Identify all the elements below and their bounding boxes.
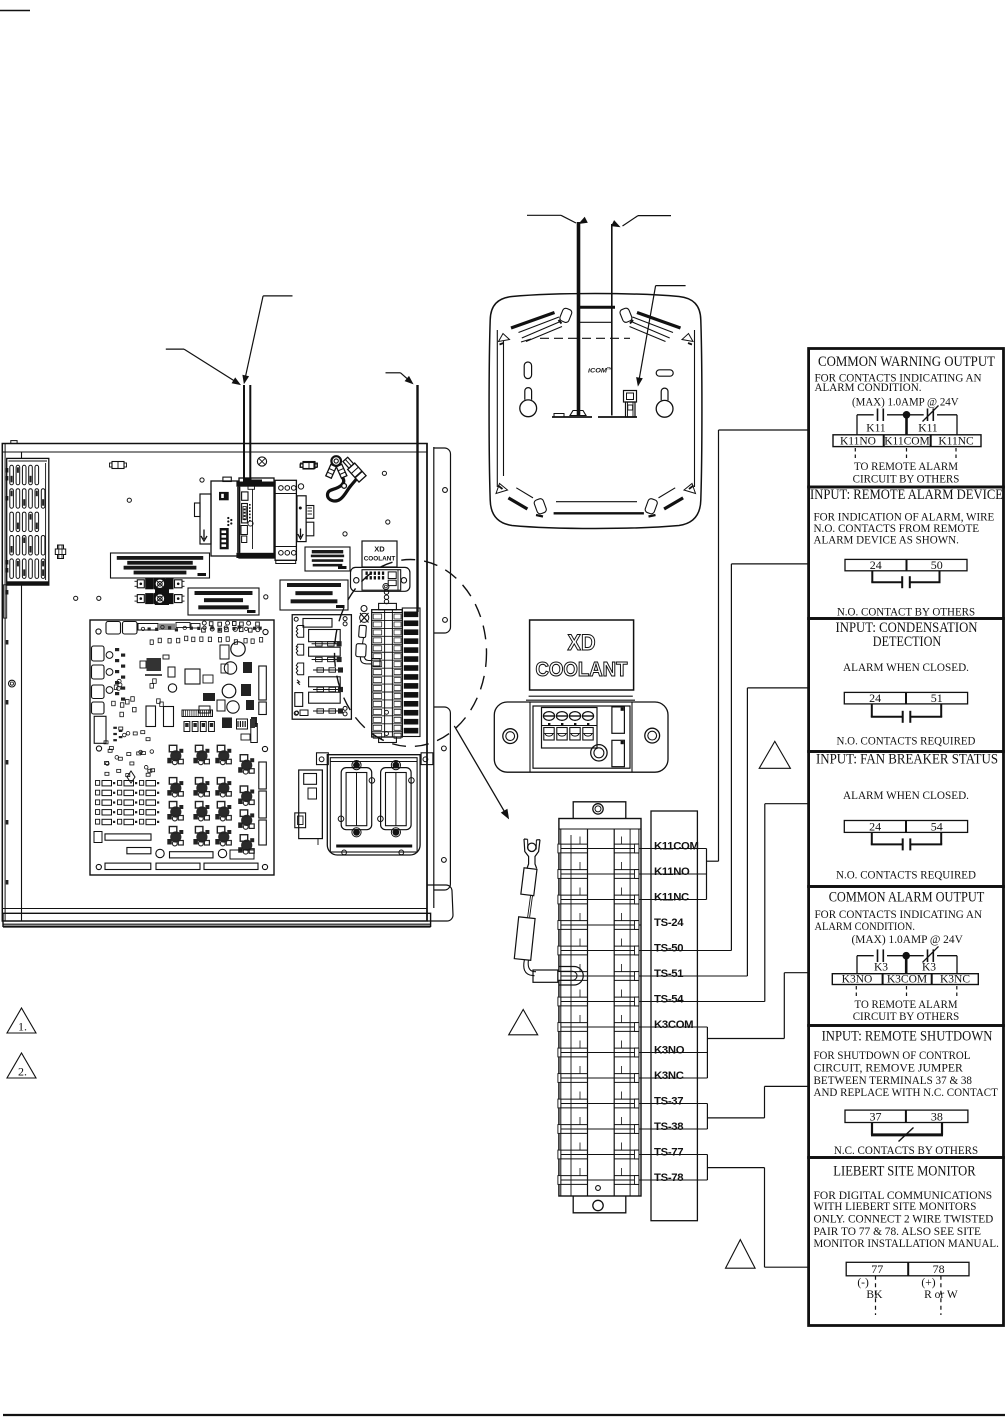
spade fork inside strip at TS-51 xyxy=(559,967,584,986)
svg-text:TS-78: TS-78 xyxy=(654,1172,683,1184)
svg-text:FOR INDICATION OF ALARM, WIRE: FOR INDICATION OF ALARM, WIRE xyxy=(814,512,995,524)
spade lug and fuse assembly wired to TS-51 xyxy=(524,839,540,869)
terminals 77 and 78 xyxy=(846,1262,969,1276)
svg-text:K3COM: K3COM xyxy=(654,1019,693,1031)
svg-text:INPUT: REMOTE SHUTDOWN: INPUT: REMOTE SHUTDOWN xyxy=(822,1028,993,1044)
wire W4: TS-54 to INPUT FAN BREAKER STATUS box xyxy=(764,804,766,1002)
relay K3 contact schematic xyxy=(857,955,874,957)
PCB right-mid round cans xyxy=(231,642,245,656)
N.O. contact symbol xyxy=(871,832,873,844)
svg-text:77: 77 xyxy=(871,1262,883,1276)
terminals 24 and 51 xyxy=(844,692,967,704)
leader to thin wire xyxy=(638,215,671,217)
enclosure outline xyxy=(489,294,702,529)
svg-text:XD: XD xyxy=(374,545,385,554)
svg-text:CIRCUIT BY OTHERS: CIRCUIT BY OTHERS xyxy=(853,1011,960,1023)
sensor screw hole left xyxy=(503,729,518,744)
enclosure bottom-left vent hatch xyxy=(516,488,533,498)
svg-text:N.O. CONTACT BY OTHERS: N.O. CONTACT BY OTHERS xyxy=(837,607,975,619)
svg-text:24: 24 xyxy=(870,558,882,572)
right keyhole slot xyxy=(661,388,668,400)
page top-left tick mark xyxy=(0,10,30,12)
N.O. contact symbol by others xyxy=(871,571,873,582)
transformer right flange xyxy=(297,496,306,542)
svg-text:ALARM DEVICE AS SHOWN.: ALARM DEVICE AS SHOWN. xyxy=(814,534,960,546)
svg-text:COOLANT: COOLANT xyxy=(536,659,628,681)
panel right edge xyxy=(426,443,428,921)
svg-text:K3NO: K3NO xyxy=(654,1045,685,1057)
svg-text:K3NO: K3NO xyxy=(842,974,873,986)
svg-text:K3: K3 xyxy=(874,961,888,973)
sensor grommet xyxy=(591,745,607,761)
PCB mid-left filler parts xyxy=(116,686,120,690)
PCB capacitor grid lower-left xyxy=(96,781,100,786)
svg-text:FOR CONTACTS INDICATING AN: FOR CONTACTS INDICATING AN xyxy=(815,909,983,921)
warning triangle near site monitor box xyxy=(726,1240,756,1269)
right flange plate lower xyxy=(434,707,451,890)
svg-text:FOR DIGITAL COMMUNICATIONS: FOR DIGITAL COMMUNICATIONS xyxy=(814,1190,993,1202)
small terminal connector in enclosure xyxy=(624,391,637,403)
svg-text:TS-50: TS-50 xyxy=(654,943,683,955)
wire clamp black bars xyxy=(402,608,420,737)
svg-text:AND REPLACE WITH N.C. CONTACT: AND REPLACE WITH N.C. CONTACT xyxy=(814,1087,998,1099)
wire W2: TS-50 to INPUT REMOTE ALARM DEVICE box xyxy=(730,564,732,951)
IO connector right xyxy=(381,768,412,830)
PCB center extra ICs xyxy=(203,693,215,701)
relay fuse links xyxy=(312,643,339,645)
XD COOLANT panel label xyxy=(362,541,397,567)
PCB transistor grid xyxy=(167,745,183,764)
svg-text:50: 50 xyxy=(931,558,943,572)
PCB top-left connectors xyxy=(106,622,121,635)
svg-text:24: 24 xyxy=(869,819,881,833)
svg-text:INPUT: REMOTE ALARM DEVICE: INPUT: REMOTE ALARM DEVICE xyxy=(810,487,1003,503)
svg-text:K3NC: K3NC xyxy=(940,974,970,986)
IO side bracket xyxy=(299,770,323,839)
PCB comb connector xyxy=(182,710,213,717)
wire W1: K11 terminals to COMMON WARNING OUTPUT box xyxy=(706,849,708,900)
terminal stub leads xyxy=(641,848,707,850)
terminals 24 and 54 xyxy=(844,821,967,833)
transformer right contactor xyxy=(275,480,296,560)
terminal cells K11NO K11COM K11NC xyxy=(833,435,981,447)
svg-text:BETWEEN TERMINALS 37 & 38: BETWEEN TERMINALS 37 & 38 xyxy=(814,1075,973,1087)
svg-text:TS-37: TS-37 xyxy=(654,1096,683,1108)
sensor module top strip xyxy=(529,695,633,697)
leader C to field wire xyxy=(386,372,401,374)
svg-text:BK: BK xyxy=(866,1289,883,1301)
field wire to terminal strip xyxy=(416,385,418,612)
incoming 24V wire pair xyxy=(243,385,245,479)
svg-text:K11NO: K11NO xyxy=(654,866,690,878)
relay fuse board xyxy=(292,615,351,720)
PCB top edge components xyxy=(202,621,206,625)
PCB mid ICs xyxy=(146,706,156,727)
panel terminal strip xyxy=(372,610,403,737)
wire W5: K3 terminals to COMMON ALARM OUTPUT box xyxy=(706,1027,708,1078)
transformer middle block xyxy=(239,478,274,558)
enclosure bottom corner bells xyxy=(533,498,547,515)
IO connector mounting plate xyxy=(317,753,329,765)
left small oval slot xyxy=(524,362,531,379)
wire W3: TS-51 to INPUT CONDENSATION DETECTION box xyxy=(746,688,748,976)
enclosure top-left vent hatch xyxy=(511,313,555,329)
PCB left small parts xyxy=(150,750,154,754)
thermostat wire thin xyxy=(611,224,613,416)
dangling fuse near strip xyxy=(361,606,367,612)
svg-text:COOLANT: COOLANT xyxy=(364,556,396,563)
svg-text:ALARM CONDITION.: ALARM CONDITION. xyxy=(815,382,922,394)
svg-text:WITH LIEBERT SITE MONITORS: WITH LIEBERT SITE MONITORS xyxy=(814,1201,977,1213)
svg-text:K11NC: K11NC xyxy=(654,892,689,904)
terminal strip row clamps xyxy=(559,848,641,850)
svg-text:ONLY. CONNECT 2 WIRE TWISTED: ONLY. CONNECT 2 WIRE TWISTED xyxy=(814,1213,994,1225)
PCB misc small parts row2 xyxy=(150,640,153,645)
svg-text:iCOM: iCOM xyxy=(588,367,607,374)
svg-text:K3NC: K3NC xyxy=(654,1070,684,1082)
svg-text:TO REMOTE ALARM: TO REMOTE ALARM xyxy=(855,999,958,1011)
ground lug wire assembly xyxy=(331,456,341,466)
XD COOLANT detail label box xyxy=(530,620,634,690)
dashed leads to remote alarm circuit xyxy=(854,448,856,459)
svg-text:TS-24: TS-24 xyxy=(654,917,684,929)
svg-text:K11: K11 xyxy=(918,423,938,435)
installer label xyxy=(305,547,350,571)
PCB right edge tall parts xyxy=(259,666,267,700)
svg-text:(-): (-) xyxy=(857,1277,869,1289)
main control PCB xyxy=(90,620,274,875)
sensor module outer body xyxy=(494,702,668,772)
terminal cells K3NO K3COM K3NC xyxy=(832,974,978,985)
PCB left connector column xyxy=(92,646,105,661)
svg-text:37: 37 xyxy=(869,1109,881,1123)
svg-text:PAIR TO 77 & 78. ALSO SEE SIT: PAIR TO 77 & 78. ALSO SEE SITE xyxy=(814,1226,981,1238)
N.O. contact symbol xyxy=(871,704,873,717)
panel screw dots xyxy=(127,498,131,502)
svg-text:CIRCUIT BY OTHERS: CIRCUIT BY OTHERS xyxy=(853,474,960,486)
PCB dip switches xyxy=(222,718,232,729)
strip bottom tab xyxy=(379,737,397,743)
sensor terminal block xyxy=(542,708,598,749)
PCB center IC cluster xyxy=(147,658,162,671)
note boxes frame column xyxy=(809,349,1004,488)
svg-text:K11NO: K11NO xyxy=(840,435,876,447)
svg-text:38: 38 xyxy=(931,1109,943,1123)
svg-text:(+): (+) xyxy=(921,1277,935,1289)
detail dashed circle xyxy=(335,560,487,747)
crosshead screw xyxy=(257,457,266,466)
panel left edge tick marks xyxy=(6,468,9,473)
svg-text:CIRCUIT, REMOVE JUMPER: CIRCUIT, REMOVE JUMPER xyxy=(814,1062,964,1074)
relay K11 contact schematic xyxy=(857,414,874,416)
svg-text:ALARM CONDITION.: ALARM CONDITION. xyxy=(815,921,916,933)
relay board left plugs xyxy=(296,626,303,638)
fuse warning label 2 xyxy=(188,588,259,615)
leader to thick wire xyxy=(527,214,561,216)
footnote triangle 2 xyxy=(7,1053,36,1078)
svg-text:TS-51: TS-51 xyxy=(654,968,683,980)
grille fastener xyxy=(58,545,64,549)
right pill slot xyxy=(656,370,673,376)
panel left bottom screw xyxy=(9,680,16,687)
wire base pads xyxy=(552,416,592,418)
strip top tab xyxy=(379,603,397,609)
svg-text:K3: K3 xyxy=(922,961,936,973)
transformer left flange xyxy=(200,494,211,544)
terminals 24 and 50 xyxy=(845,559,967,570)
right flange plate upper xyxy=(434,448,451,633)
relay slots xyxy=(303,619,332,628)
iCOM receptacle module xyxy=(351,567,410,591)
warning triangle near sensor xyxy=(759,741,790,768)
wire tie bars xyxy=(577,306,615,309)
svg-text:K3COM: K3COM xyxy=(887,974,927,986)
svg-text:(MAX) 1.0AMP @ 24V: (MAX) 1.0AMP @ 24V xyxy=(852,397,959,409)
svg-text:(MAX) 1.0AMP @ 24V: (MAX) 1.0AMP @ 24V xyxy=(852,934,964,946)
terminal strip detail body xyxy=(559,819,641,1197)
svg-text:TS-54: TS-54 xyxy=(654,994,684,1006)
wire W6: TS-37 TS-38 to INPUT REMOTE SHUTDOWN box xyxy=(706,1104,708,1130)
svg-text:COMMON ALARM OUTPUT: COMMON ALARM OUTPUT xyxy=(829,889,985,905)
top panel fastener left xyxy=(112,462,124,469)
terminal strip mounting tab bottom xyxy=(573,1196,626,1213)
svg-text:TO REMOTE ALARM: TO REMOTE ALARM xyxy=(854,461,958,473)
warning triangle near terminal strip xyxy=(509,1010,538,1035)
PCB bottom connector strips xyxy=(94,832,102,843)
svg-text:ALARM WHEN CLOSED.: ALARM WHEN CLOSED. xyxy=(843,662,969,674)
transformer left block xyxy=(211,481,239,556)
PCB relay driver row xyxy=(184,722,190,732)
footnote triangle 1 xyxy=(7,1008,36,1033)
svg-text:N.C. CONTACTS BY OTHERS: N.C. CONTACTS BY OTHERS xyxy=(834,1145,978,1157)
leader A to wire pair xyxy=(263,295,292,297)
svg-text:N.O. CONTACTS FROM REMOTE: N.O. CONTACTS FROM REMOTE xyxy=(814,523,980,535)
panel bottom band xyxy=(3,908,427,910)
vent grille xyxy=(7,458,49,585)
dashed leads to remote alarm circuit xyxy=(855,986,857,998)
thermostat wire thick xyxy=(577,222,581,416)
fuse warning label 1 xyxy=(111,553,210,578)
left keyhole slot xyxy=(525,388,532,400)
svg-text:TS-38: TS-38 xyxy=(654,1121,683,1133)
top panel fastener right xyxy=(303,462,315,469)
N.C. contact jumper xyxy=(871,1123,873,1135)
svg-text:N.O. CONTACTS REQUIRED: N.O. CONTACTS REQUIRED xyxy=(836,870,976,882)
enclosure inner wall lines xyxy=(496,330,498,487)
IO bottom bar xyxy=(336,845,412,848)
enclosure bottom bar xyxy=(554,512,644,514)
terminal strip mounting tab top xyxy=(573,802,626,819)
svg-text:K11: K11 xyxy=(866,423,886,435)
leader B to wire pair xyxy=(166,348,184,350)
enclosure bottom corner triangles xyxy=(496,484,508,494)
svg-text:ALARM WHEN CLOSED.: ALARM WHEN CLOSED. xyxy=(843,790,969,802)
svg-text:51: 51 xyxy=(931,691,943,705)
leader to enclosure terminal xyxy=(656,285,686,287)
enclosure hidden edge dashed xyxy=(540,337,630,339)
svg-text:78: 78 xyxy=(933,1262,945,1276)
svg-text:COMMON WARNING OUTPUT: COMMON WARNING OUTPUT xyxy=(818,354,995,370)
svg-text:24: 24 xyxy=(869,691,881,705)
wire W7: TS-77 TS-78 to LIEBERT SITE MONITOR box xyxy=(706,1155,708,1181)
PCB top dense band xyxy=(141,627,144,630)
sensor screw hole right xyxy=(645,728,660,743)
svg-text:DETECTION: DETECTION xyxy=(873,634,942,650)
svg-text:LIEBERT SITE MONITOR: LIEBERT SITE MONITOR xyxy=(833,1163,976,1179)
left flange slot xyxy=(4,585,7,618)
clip fastener xyxy=(303,463,314,470)
enclosure top corner triangles xyxy=(499,334,510,342)
svg-text:N.O. CONTACTS REQUIRED: N.O. CONTACTS REQUIRED xyxy=(837,735,976,747)
panel enclosure outline xyxy=(2,444,427,922)
terminal label box xyxy=(651,811,697,1221)
svg-text:1.: 1. xyxy=(18,1020,27,1034)
footer rule xyxy=(3,1414,1005,1416)
svg-text:K11COM: K11COM xyxy=(654,841,699,853)
sensor side rects xyxy=(612,707,625,733)
enclosure bottom thin line xyxy=(556,501,637,503)
svg-text:2.: 2. xyxy=(18,1065,27,1079)
terminals 37 and 38 xyxy=(845,1110,968,1122)
IO connector left xyxy=(341,768,372,830)
svg-text:INPUT: FAN BREAKER STATUS: INPUT: FAN BREAKER STATUS xyxy=(816,752,998,768)
svg-text:MONITOR INSTALLATION MANUAL.: MONITOR INSTALLATION MANUAL. xyxy=(814,1238,1000,1250)
sensor module inner plate xyxy=(533,706,630,768)
svg-text:K11COM: K11COM xyxy=(884,435,930,447)
svg-text:54: 54 xyxy=(931,819,943,833)
fuse warning label 3 xyxy=(280,580,348,610)
detail arrow xyxy=(454,726,507,817)
enclosure top corner bells xyxy=(559,307,573,323)
svg-text:XD: XD xyxy=(568,630,596,655)
svg-text:FOR SHUTDOWN OF CONTROL: FOR SHUTDOWN OF CONTROL xyxy=(814,1050,971,1062)
dual fuse holder xyxy=(155,579,169,605)
svg-text:K11NC: K11NC xyxy=(938,435,974,447)
svg-text:TS-77: TS-77 xyxy=(654,1147,683,1159)
